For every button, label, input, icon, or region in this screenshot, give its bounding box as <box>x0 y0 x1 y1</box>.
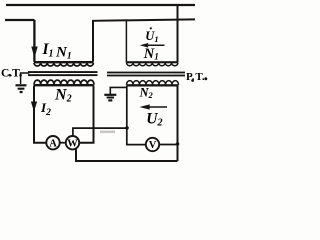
svg-text:C.T.: C.T. <box>1 67 22 79</box>
svg-text:V: V <box>149 140 157 151</box>
svg-text:A: A <box>49 138 57 149</box>
svg-text:W: W <box>67 138 78 149</box>
svg-text:P. T.: P. T. <box>186 71 205 83</box>
